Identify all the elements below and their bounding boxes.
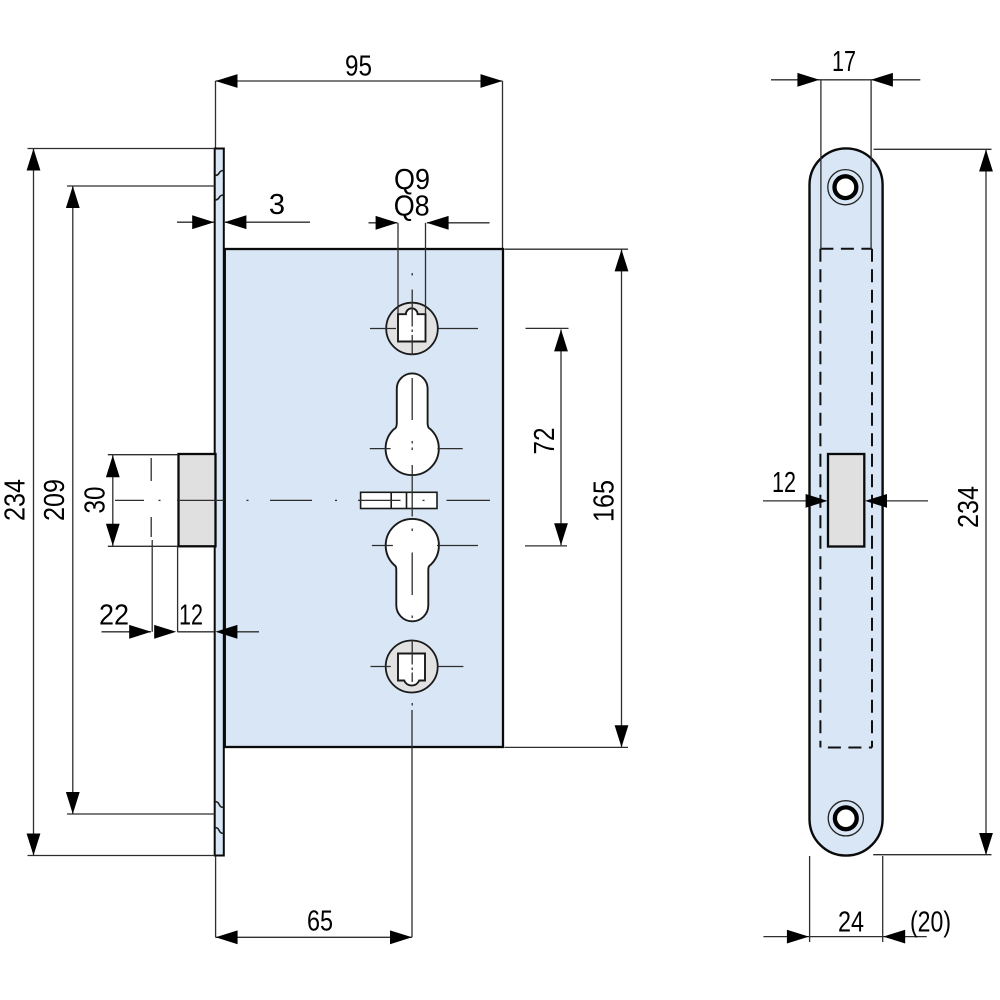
- screw hole bottom: [835, 807, 857, 829]
- dimension 22 and 12 (latch projection): [99, 540, 259, 639]
- hole centerline ticks: [370, 329, 478, 667]
- dimension 72 (spindle to cylinder): [525, 328, 569, 546]
- euro cylinder keyhole lower (inverted): [386, 519, 439, 621]
- screw hole top: [835, 176, 857, 198]
- screw hole top countersink: [828, 170, 863, 205]
- svg-text:72: 72: [529, 428, 561, 455]
- spindle hub bottom (grey circle): [386, 641, 438, 693]
- case outline hidden (dashed rectangle): [820, 249, 872, 748]
- dimension 234 (right overall height): [873, 149, 993, 855]
- spindle hub top (grey circle): [386, 303, 438, 355]
- svg-text:22: 22: [99, 599, 129, 631]
- svg-text:165: 165: [589, 480, 621, 522]
- dimension Q9 Q8 (spindle hole): [369, 164, 490, 314]
- faceplate break mark top 2: [215, 195, 224, 200]
- screw hole bottom countersink: [828, 801, 863, 836]
- dimension 3 (faceplate thickness): [177, 189, 310, 229]
- latch bolt (front view): [179, 454, 216, 546]
- svg-text:3: 3: [269, 189, 285, 221]
- svg-text:(20): (20): [910, 907, 951, 939]
- svg-text:234: 234: [0, 479, 32, 521]
- follower stop plate (center rectangle): [361, 492, 437, 508]
- svg-text:Q8: Q8: [394, 190, 430, 222]
- spindle square hole bottom: [398, 654, 425, 686]
- euro cylinder keyhole upper: [386, 373, 439, 475]
- horizontal centerline (latch axis): [115, 499, 490, 501]
- vertical centerline (hole axis): [411, 273, 413, 706]
- lock body (front view case): [225, 249, 503, 747]
- svg-text:65: 65: [307, 906, 333, 938]
- dimension 17 (case thickness): [771, 46, 920, 249]
- dimension 209 (screw hole spacing): [39, 186, 215, 814]
- svg-text:234: 234: [953, 486, 985, 528]
- dimension 24 and (20) (faceplate width): [763, 856, 951, 944]
- latch bolt (side view): [828, 454, 864, 547]
- faceplate (edge view, left): [215, 149, 224, 856]
- dimension 65 (backset): [216, 710, 413, 944]
- svg-text:24: 24: [838, 907, 864, 939]
- follower plate divider 1: [390, 492, 392, 508]
- latch projection centerline vertical: [150, 458, 152, 537]
- dimension 234 (left overall height): [0, 149, 215, 856]
- faceplate (front view, right): [810, 148, 883, 855]
- faceplate break mark bottom 1: [215, 802, 224, 808]
- svg-text:209: 209: [39, 479, 71, 521]
- svg-text:17: 17: [832, 46, 856, 78]
- dimension 12 (latch width side): [763, 467, 928, 508]
- faceplate break mark bottom 2: [215, 828, 224, 834]
- follower plate divider 2: [406, 492, 408, 508]
- svg-text:30: 30: [79, 487, 111, 514]
- svg-text:95: 95: [345, 50, 372, 82]
- dimension 165 (case height): [505, 249, 629, 747]
- faceplate break mark top 1: [215, 171, 224, 176]
- svg-text:12: 12: [772, 467, 796, 499]
- dimension 30 (latch height): [79, 455, 178, 547]
- svg-text:12: 12: [179, 599, 203, 631]
- dimension 95 (top width): [216, 50, 503, 248]
- spindle square hole Q8 top: [398, 308, 426, 341]
